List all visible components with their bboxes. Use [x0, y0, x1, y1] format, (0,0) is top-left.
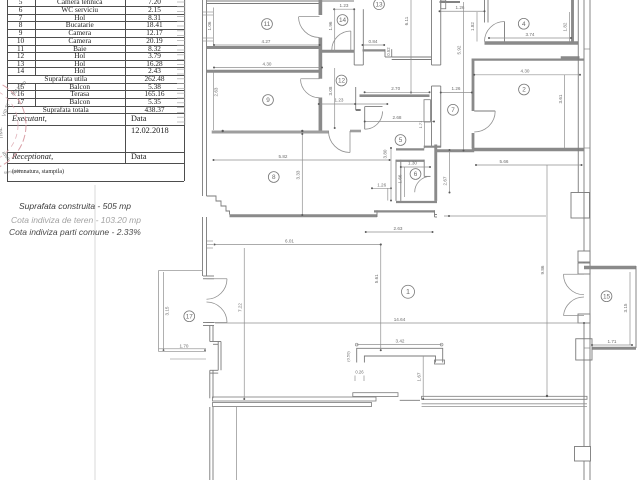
- dim 1.67: [416, 356, 423, 399]
- svg-text:7.22: 7.22: [237, 303, 242, 312]
- top cap rects: [441, 0, 446, 9]
- left exterior wall to terrace: [209, 370, 211, 398]
- dim 1.71 small: [418, 120, 425, 148]
- rooms 5/6 bottom wall: [396, 201, 437, 203]
- room 7 label: [448, 104, 459, 115]
- right window wall inner line: [577, 0, 579, 193]
- faint fold line: [94, 185, 96, 480]
- note: cota indiviza parti comune: [9, 227, 141, 237]
- svg-text:1.70: 1.70: [180, 344, 189, 349]
- red stamp inner arc: [0, 87, 18, 163]
- stairs hatch top-left: [177, 2, 185, 122]
- left exterior wall below door: [209, 326, 211, 342]
- terrace inner vertical line: [236, 407, 238, 480]
- room 14 label: [337, 15, 348, 26]
- dim 3.80: [383, 147, 392, 202]
- door arc room 8: [349, 131, 351, 153]
- dim 0.84: [362, 39, 386, 46]
- svg-text:1.26: 1.26: [452, 86, 461, 91]
- svg-text:1: 1: [406, 287, 410, 296]
- dim 1.82 b: [563, 12, 570, 42]
- room 9 label: [263, 95, 274, 106]
- window ticks upper left wall: [203, 11, 213, 13]
- svg-text:1.67: 1.67: [416, 372, 421, 381]
- dim 1.71 balcony: [591, 339, 633, 346]
- room 12 label: [336, 75, 347, 86]
- svg-text:4.30: 4.30: [263, 62, 272, 67]
- dim 1.82 a: [470, 12, 477, 42]
- svg-text:1.71: 1.71: [608, 339, 617, 344]
- walls near 0.84 niche: [363, 49, 386, 51]
- door room 2 leaf: [474, 110, 495, 112]
- door arc room 9: [301, 78, 320, 80]
- svg-text:3.33: 3.33: [296, 170, 301, 179]
- note: suprafata construita: [19, 201, 131, 211]
- svg-text:1.82: 1.82: [563, 22, 568, 31]
- svg-text:6.11: 6.11: [404, 16, 409, 25]
- room 13 label: [374, 0, 385, 10]
- corridor top wall fragment: [440, 1, 461, 3]
- dim 1.26 left: [371, 182, 392, 189]
- table border lines: [7, 6, 184, 7]
- room 5 bottom wall right part: [424, 146, 441, 148]
- right wall window connectors: [584, 48, 590, 50]
- door frame top (balcony 17 door): [203, 275, 214, 277]
- svg-text:13: 13: [375, 1, 383, 8]
- svg-text:2.68: 2.68: [393, 115, 402, 120]
- wall jog right: [210, 341, 221, 343]
- balcony 17 bottom wall: [159, 348, 207, 350]
- dim 1.30: [400, 161, 431, 168]
- dim 2.67: [442, 149, 450, 194]
- door arc room 14: [350, 31, 352, 50]
- wall right of rooms 11 and 9: [319, 0, 323, 15]
- svg-text:2.63: 2.63: [394, 226, 403, 231]
- balcony 17 outline: [158, 271, 160, 352]
- dim 1.26 top: [439, 5, 486, 12]
- svg-text:3.08: 3.08: [328, 86, 333, 95]
- left exterior wall upper: [202, 0, 204, 196]
- wall below corridor (2.70): [360, 94, 430, 97]
- svg-text:1.23: 1.23: [340, 3, 349, 8]
- room 5 bottom wall left part: [396, 148, 424, 150]
- svg-text:2.67: 2.67: [442, 176, 447, 185]
- svg-text:MAZA P: MAZA P: [10, 80, 29, 98]
- balcony 15 top wall: [584, 266, 636, 269]
- svg-text:7: 7: [451, 107, 455, 114]
- room 2 label: [519, 84, 530, 95]
- door arc room 6: [415, 176, 431, 192]
- room 8 bottom wall: [230, 214, 378, 217]
- door arc room 5 top: [365, 111, 383, 129]
- svg-text:8: 8: [272, 174, 276, 181]
- balcony 15 right wall: [635, 266, 637, 348]
- svg-text:14: 14: [339, 17, 347, 24]
- left exterior wall mid: [202, 217, 204, 276]
- dim 4.30 room2: [473, 69, 581, 76]
- room 4 bottom wall: [485, 41, 579, 44]
- protrusion below balcony 15: [576, 339, 592, 360]
- svg-text:1.06: 1.06: [207, 21, 212, 30]
- note: cota indiviza teren: [11, 215, 141, 225]
- window ticks left wall: [207, 240, 213, 242]
- balcony 17 lower lip line: [170, 358, 206, 360]
- svg-text:2: 2: [522, 87, 526, 94]
- dim 1.23 mid: [319, 97, 388, 104]
- door arc room 11: [299, 16, 320, 18]
- corridor wall rooms 14/13: [353, 9, 355, 65]
- dim 2.70: [365, 91, 430, 93]
- svg-text:espr: espr: [1, 149, 12, 161]
- svg-text:2.63: 2.63: [214, 87, 219, 96]
- svg-text:TIML: TIML: [0, 127, 5, 139]
- dim 3.08: [328, 68, 335, 128]
- svg-text:4.27: 4.27: [262, 39, 271, 44]
- dim 6.11: [404, 0, 411, 93]
- dim 2.63 left: [214, 70, 219, 130]
- svg-text:3.80: 3.80: [383, 149, 388, 158]
- dim 2.68: [364, 115, 435, 122]
- wall jog left: [210, 369, 218, 371]
- dim 5.82: [213, 154, 391, 161]
- jamb boxes above balcony 15 door: [578, 251, 590, 262]
- svg-text:0.26: 0.26: [355, 370, 364, 375]
- dim 3.33: [296, 133, 304, 216]
- balcony 15 bottom wall: [592, 347, 636, 350]
- table row text: [7, 0, 35, 6]
- svg-text:17: 17: [186, 313, 194, 320]
- svg-text:5.82: 5.82: [279, 154, 288, 159]
- steps at room 8 corner: [207, 196, 230, 215]
- room 4 label: [518, 18, 529, 29]
- svg-text:3.15: 3.15: [623, 303, 628, 312]
- door frame bottom (balcony 17 door): [203, 322, 214, 324]
- svg-text:11: 11: [264, 21, 271, 28]
- door arc room 2: [474, 111, 495, 132]
- svg-text:1.96: 1.96: [328, 21, 333, 30]
- svg-text:14.64: 14.64: [394, 317, 406, 322]
- svg-text:3.74: 3.74: [526, 32, 535, 37]
- room 6 label: [410, 169, 421, 180]
- door leaf room 6: [424, 175, 430, 177]
- wall jog: [376, 210, 378, 217]
- room 1 label: [402, 285, 415, 298]
- pillar right wall upper: [571, 193, 590, 219]
- wall segment offset: [217, 342, 219, 371]
- svg-text:1.30: 1.30: [408, 161, 417, 166]
- wall cap near corridor: [350, 130, 361, 133]
- svg-text:5.92: 5.92: [457, 45, 462, 54]
- dim 1.66: [398, 167, 405, 197]
- svg-text:5.66: 5.66: [500, 159, 509, 164]
- wall left of room 7 lower: [431, 86, 433, 148]
- dim 3.74: [488, 32, 572, 39]
- shaft rect: [424, 100, 430, 122]
- svg-text:sem pjda: sem pjda: [3, 168, 21, 175]
- double door to balcony 15: [564, 273, 585, 275]
- right exterior wall: [583, 0, 585, 274]
- room 5 label: [395, 135, 406, 146]
- room 6 left wall: [395, 160, 397, 201]
- dim 5.66: [475, 159, 583, 166]
- svg-text:0.52: 0.52: [386, 47, 391, 56]
- room 6 partition: [396, 160, 424, 162]
- wall left of room 7 upper: [431, 0, 433, 65]
- room 2 left wall lower: [472, 133, 475, 148]
- wall above room 5 door: [365, 106, 383, 108]
- room 2 left wall upper: [472, 59, 475, 112]
- svg-text:4.30: 4.30: [521, 69, 530, 74]
- terrace edge bars: [213, 397, 377, 401]
- wall stub right of room 4: [561, 56, 580, 59]
- svg-text:9: 9: [266, 97, 270, 104]
- room 4 left wall: [484, 0, 486, 23]
- dim 1.26 mid: [440, 86, 473, 93]
- svg-text:5.61: 5.61: [374, 274, 379, 283]
- dim 6.01: [214, 238, 382, 245]
- svg-text:1.71: 1.71: [418, 120, 423, 129]
- svg-text:5: 5: [399, 137, 403, 144]
- dim 14.64: [215, 317, 584, 323]
- svg-text:1.23: 1.23: [335, 97, 344, 102]
- rooms 5/6 right wall: [434, 145, 437, 201]
- svg-text:1.82: 1.82: [470, 22, 475, 31]
- room 11 top wall: [207, 0, 354, 2]
- small rect bottom middle: [435, 360, 445, 364]
- pillar right wall lower: [575, 447, 591, 462]
- dim 3.15 balcony15: [623, 272, 630, 345]
- staple shape (planter): [357, 348, 443, 362]
- red stamp outer arc: [0, 79, 26, 171]
- room 17 label: [184, 311, 195, 322]
- dim 5.61: [374, 244, 382, 352]
- svg-text:0.84: 0.84: [369, 39, 378, 44]
- room 8 label: [268, 172, 279, 183]
- svg-text:12: 12: [338, 78, 346, 85]
- room 7 bottom wall: [437, 149, 474, 152]
- svg-text:6.01: 6.01: [285, 238, 294, 243]
- svg-text:6: 6: [414, 171, 418, 178]
- door arc room 4: [504, 22, 506, 42]
- room 9 top wall: [207, 70, 322, 73]
- svg-text:3.42: 3.42: [396, 338, 405, 343]
- double door to balcony 17: [207, 278, 228, 280]
- jamb box below balcony 15 door: [578, 314, 590, 323]
- svg-text:3.15: 3.15: [165, 306, 170, 315]
- dim 5.92: [457, 2, 464, 151]
- dim 2.63 mid: [365, 226, 434, 233]
- svg-text:15: 15: [603, 293, 611, 300]
- svg-text:2.70: 2.70: [391, 86, 400, 91]
- room 14 bottom wall: [322, 50, 354, 53]
- dim 4.30 room9: [213, 62, 323, 69]
- dim 1.96: [328, 9, 335, 52]
- room 2 top wall: [472, 59, 584, 61]
- room 2 bottom wall: [472, 148, 584, 151]
- left exterior wall below terrace: [209, 407, 211, 480]
- svg-text:(0.50): (0.50): [345, 351, 350, 362]
- thick wall room 9 / room 8: [212, 131, 329, 134]
- table: room areas: [0, 0, 640, 1]
- room 11 label: [262, 19, 273, 30]
- dim 3.15 balcony17: [164, 272, 170, 350]
- dim 4.27: [213, 39, 321, 46]
- dim 3.61: [558, 75, 565, 148]
- dim 9.86: [540, 165, 547, 396]
- dim 1.23 top: [333, 3, 355, 10]
- svg-text:VIILTI: VIILTI: [1, 103, 12, 118]
- dim 1.06: [207, 8, 214, 46]
- room 4 right wall: [571, 0, 574, 42]
- stairs rail: [184, 0, 186, 125]
- wall room 11 / room 9: [207, 46, 320, 49]
- corridor wall lower: [355, 87, 357, 110]
- svg-text:4: 4: [522, 21, 526, 28]
- svg-text:3.61: 3.61: [558, 94, 563, 103]
- dim 7.22: [237, 248, 244, 399]
- dim 3.42: [357, 344, 442, 346]
- room 15 label: [601, 291, 612, 302]
- svg-text:1.66: 1.66: [398, 174, 403, 183]
- svg-text:9.86: 9.86: [540, 265, 545, 274]
- dim ext line mid: [444, 215, 546, 217]
- svg-text:1.26: 1.26: [377, 182, 386, 187]
